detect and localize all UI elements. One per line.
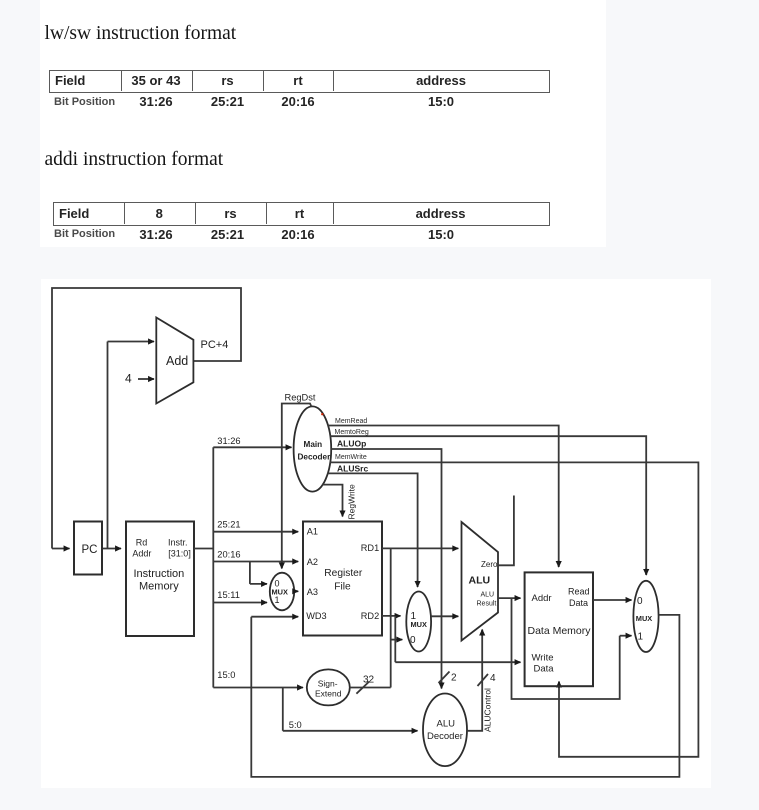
wire instruction bus vertical <box>212 447 214 687</box>
wire RD1 to ALU <box>382 547 458 549</box>
svg-text:2: 2 <box>451 673 457 684</box>
svg-text:4: 4 <box>490 673 496 684</box>
wire junction up to Add input <box>107 342 109 549</box>
svg-text:0: 0 <box>410 635 416 646</box>
adder Add <box>156 318 193 404</box>
register file box <box>303 522 382 636</box>
svg-text:15:0: 15:0 <box>217 670 235 680</box>
svg-text:Sign-: Sign- <box>318 679 338 689</box>
bus slash 32 <box>356 682 369 694</box>
svg-text:MemRead: MemRead <box>335 418 367 425</box>
wire MemRead <box>328 426 559 567</box>
wire PC+4 loop top <box>52 288 241 549</box>
wire RD2 down to write data <box>394 616 396 662</box>
table 2 row 1 text <box>59 206 89 221</box>
svg-text:1: 1 <box>275 595 280 605</box>
datapath diagram svg <box>41 279 711 788</box>
svg-text:ALUSrc: ALUSrc <box>337 464 368 474</box>
wire MemtoReg <box>330 436 646 574</box>
svg-text:0: 0 <box>637 596 643 607</box>
table 2 frame <box>53 202 550 226</box>
svg-text:32: 32 <box>363 675 375 686</box>
wire read data to mux3 input 0 <box>593 599 632 601</box>
heading 1 <box>45 24 237 44</box>
top white panel <box>40 0 606 247</box>
svg-text:1: 1 <box>638 632 644 643</box>
svg-text:Register: Register <box>324 568 363 579</box>
svg-text:Data: Data <box>569 598 588 608</box>
svg-text:Data Memory: Data Memory <box>528 625 592 637</box>
wire sign extend output <box>350 687 391 689</box>
table 1 row 1 text <box>55 73 85 88</box>
mux1 (RegDst mux) ellipse <box>270 573 294 611</box>
wire 25:21 to A1 <box>213 531 298 533</box>
wire mux3 output writeback loop <box>251 615 679 777</box>
svg-text:PC+4: PC+4 <box>201 339 229 351</box>
svg-text:25:21: 25:21 <box>217 519 240 529</box>
svg-text:ALUControl: ALUControl <box>483 688 493 732</box>
heading 2 <box>45 150 224 170</box>
svg-text:Decoder: Decoder <box>427 731 463 742</box>
wire ALU result to data memory addr <box>498 597 521 599</box>
wire writeback into WD3 <box>251 616 298 618</box>
wire RD2 to mux2 input 1 <box>382 615 401 617</box>
data memory box <box>525 572 593 686</box>
mux3 (MemtoReg mux) ellipse <box>633 581 658 652</box>
svg-text:MUX: MUX <box>411 620 427 629</box>
svg-text:Decoder: Decoder <box>298 452 332 461</box>
wire tap into mux2 input 0 <box>391 639 403 641</box>
wire 31:26 to main decoder <box>213 446 291 448</box>
svg-text:Read: Read <box>568 587 590 597</box>
svg-text:31:26: 31:26 <box>217 436 240 446</box>
sign extend ellipse <box>307 669 350 705</box>
wire arrow into PC <box>52 548 70 550</box>
diagram white panel <box>41 279 711 788</box>
svg-text:Write: Write <box>532 653 554 664</box>
svg-text:A2: A2 <box>307 557 318 567</box>
svg-text:MemWrite: MemWrite <box>335 454 367 461</box>
wire PC to instruction memory <box>102 548 121 550</box>
table 1 frame <box>49 70 550 93</box>
svg-text:Extend: Extend <box>315 689 342 699</box>
wire ALU decoder out up to ALU (ALUControl) <box>467 630 482 731</box>
register PC <box>74 522 102 575</box>
main decoder ellipse <box>294 406 332 491</box>
wire RegDst arrow into mux top <box>281 560 283 569</box>
instruction memory box <box>126 522 194 637</box>
bus slash 2 <box>439 672 450 684</box>
mux2 (ALUSrc mux) ellipse <box>406 592 431 652</box>
wire mux2 out to ALU <box>431 615 458 617</box>
wire RegWrite from decoder bottom <box>322 485 343 516</box>
wire ALUOp <box>331 449 442 688</box>
wire RegDst from decoder top <box>282 404 312 569</box>
svg-text:Addr: Addr <box>532 593 552 604</box>
wire 15:11 to mux input 1 <box>213 602 267 604</box>
wire 5:0 branch to ALU decoder <box>282 688 284 731</box>
svg-text:Zero: Zero <box>481 560 498 569</box>
wire IM output to bus <box>194 548 213 550</box>
ALU decoder ellipse <box>423 694 467 767</box>
wire vertical RD1/signext column <box>390 548 392 687</box>
wire arrow into Add input 1 <box>108 341 155 343</box>
wire 15:0 to sign extend <box>213 687 303 689</box>
red speck on decoder <box>321 413 323 415</box>
wire mux1 out to A3 <box>293 590 298 592</box>
svg-text:RegDst: RegDst <box>285 393 316 403</box>
svg-text:File: File <box>334 582 351 593</box>
svg-text:MUX: MUX <box>636 614 652 623</box>
svg-text:Result: Result <box>477 601 497 608</box>
svg-text:A1: A1 <box>307 526 318 536</box>
svg-text:WD3: WD3 <box>306 611 326 621</box>
svg-text:4: 4 <box>125 372 132 386</box>
svg-text:Addr: Addr <box>132 548 151 558</box>
bus slash 4 <box>478 674 489 686</box>
svg-text:MemtoReg: MemtoReg <box>335 429 369 436</box>
svg-text:ALU: ALU <box>469 575 491 587</box>
svg-text:15:11: 15:11 <box>217 590 240 600</box>
wire 20:16 branch down to mux <box>249 562 251 584</box>
svg-text:RD2: RD2 <box>361 611 379 621</box>
svg-text:ALUOp: ALUOp <box>337 439 366 449</box>
wire Zero stub <box>498 496 514 566</box>
svg-text:5:0: 5:0 <box>289 720 302 730</box>
wire ALUSrc <box>328 473 418 586</box>
svg-text:Main: Main <box>304 440 323 449</box>
svg-text:Instr.: Instr. <box>168 538 188 548</box>
svg-text:Rd: Rd <box>136 538 148 548</box>
svg-text:Memory: Memory <box>139 581 179 593</box>
svg-text:A3: A3 <box>307 587 318 597</box>
svg-text:Instruction: Instruction <box>134 568 185 580</box>
svg-text:20:16: 20:16 <box>217 549 240 559</box>
wire MemWrite <box>330 462 698 756</box>
svg-text:RegWrite: RegWrite <box>347 484 357 520</box>
wire into data memory write data <box>395 661 520 663</box>
wire ALU result branch under memory to mux3 <box>512 598 620 699</box>
svg-text:Add: Add <box>166 354 188 368</box>
svg-text:ALU: ALU <box>481 592 495 599</box>
svg-text:RD1: RD1 <box>361 543 379 553</box>
ALU trapezoid <box>462 522 499 641</box>
wire 20:16 to A2 <box>213 561 298 563</box>
svg-text:ALU: ALU <box>437 719 456 730</box>
wire into mux3 input 1 <box>620 635 632 637</box>
svg-text:[31:0]: [31:0] <box>168 548 191 558</box>
table 2 row 2 text <box>54 228 115 240</box>
svg-text:Data: Data <box>534 663 555 674</box>
wire into mux input 0 <box>250 583 267 585</box>
svg-text:PC: PC <box>82 544 98 556</box>
wire 4 into Add input 2 <box>138 378 154 380</box>
table 1 row 2 text <box>54 96 115 108</box>
